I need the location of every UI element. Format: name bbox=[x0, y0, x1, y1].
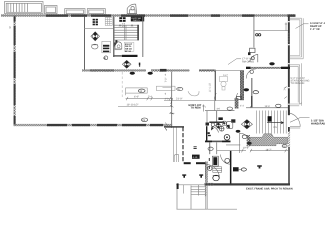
kitchen east wall line bbox=[170, 72, 173, 127]
lower hall marks bbox=[208, 142, 211, 154]
column mid bbox=[257, 165, 262, 168]
room divider line y30.5 bbox=[254, 30, 288, 32]
svg-text:EXIST. FRAME GAR. PRCH TO REMA: EXIST. FRAME GAR. PRCH TO REMAIN bbox=[246, 188, 293, 191]
fan symbol diamond 1 bbox=[91, 32, 100, 41]
fixtures row y117-126 bbox=[218, 117, 222, 120]
bay window B bbox=[65, 9, 85, 15]
small closet box bbox=[250, 48, 255, 52]
svg-text:RM OPNG: RM OPNG bbox=[242, 60, 254, 63]
WH symbol bbox=[103, 56, 107, 60]
handrail note bbox=[311, 120, 325, 126]
svg-text:HAND RAIL: HAND RAIL bbox=[311, 122, 325, 125]
kitchen dim line 1 bbox=[126, 95, 172, 100]
west wall of toilet room bbox=[206, 111, 209, 126]
dim line below bbox=[250, 149, 290, 152]
toilet west bbox=[92, 44, 98, 49]
island label oval bbox=[138, 89, 145, 93]
porch columns bbox=[182, 174, 203, 177]
stair treads vertical bbox=[257, 111, 287, 134]
top wall segment above porch bbox=[164, 126, 184, 127]
sink east of shelf bbox=[115, 40, 122, 49]
svg-text:TO REMAIN: TO REMAIN bbox=[291, 82, 305, 85]
svg-text:4'-0": 4'-0" bbox=[134, 95, 139, 98]
shelf line y28.5 bbox=[84, 28, 113, 30]
wall y141 bbox=[205, 141, 231, 143]
east wall black x230.5 bbox=[230, 151, 232, 184]
circled fixture bbox=[224, 135, 230, 141]
door label oval right of band bbox=[282, 144, 287, 147]
core bottom wall thick bbox=[122, 55, 138, 57]
porch door arc bbox=[206, 164, 220, 178]
tub bbox=[188, 91, 199, 96]
tick left of porch bbox=[165, 128, 167, 130]
label oval on corridor wall bbox=[253, 91, 258, 94]
svg-text:1'-0" VIF: 1'-0" VIF bbox=[310, 28, 320, 31]
porch north wall bbox=[184, 162, 191, 164]
label right of hatch wall bbox=[244, 88, 249, 91]
right wall bbox=[288, 16, 290, 186]
kitchen dim line 2 bbox=[118, 104, 172, 107]
svg-text:TO REM: TO REM bbox=[191, 107, 201, 110]
rounded corner box bbox=[174, 155, 178, 162]
svg-text:14-7: 14-7 bbox=[223, 74, 228, 77]
leader to ramp note bbox=[296, 24, 309, 29]
label box + leader bbox=[233, 167, 239, 171]
svg-text:DO: DO bbox=[283, 145, 287, 148]
leader to room note bbox=[228, 59, 241, 65]
small door mark bbox=[139, 63, 141, 67]
ticks on east wall line bbox=[169, 105, 174, 114]
equals mark bbox=[194, 147, 197, 149]
small fan diamond in toilet room bbox=[215, 123, 221, 129]
wall label oval bottom-left bbox=[141, 118, 147, 122]
fixture grid black A bbox=[93, 19, 98, 26]
tick on bottom wall bbox=[165, 120, 172, 128]
UP marking bbox=[268, 116, 272, 121]
top wall hatched band bbox=[1, 14, 295, 17]
door arc to hall bbox=[236, 130, 241, 133]
svg-text:16'-7": 16'-7" bbox=[266, 149, 272, 152]
dark corner marks bbox=[237, 97, 242, 100]
corridor west wall bbox=[251, 78, 252, 108]
rounded fixture with dark blob bbox=[227, 122, 233, 129]
ramp upper rect bbox=[290, 18, 303, 59]
top wall dark segments bbox=[46, 14, 296, 16]
label box black bbox=[192, 155, 200, 159]
toilet room top wall bbox=[209, 122, 224, 124]
ramp note text bbox=[310, 22, 325, 31]
bay window C bbox=[87, 9, 105, 15]
dark marks lower-left of toilet room bbox=[208, 132, 211, 136]
casework island bbox=[126, 88, 148, 95]
toilet top view bbox=[222, 121, 226, 125]
svg-text:10'-10 1/2": 10'-10 1/2" bbox=[127, 104, 139, 107]
fixture grid black B bbox=[119, 17, 125, 22]
water heater black bbox=[212, 156, 218, 166]
core right wall bbox=[142, 17, 143, 58]
hatch strip vertical x235-238 bbox=[235, 98, 239, 109]
stair core left wall bbox=[113, 17, 114, 58]
svg-text:EF 12: EF 12 bbox=[125, 50, 132, 53]
interior wall x84 bbox=[84, 17, 85, 71]
ramp lower rect bbox=[290, 63, 302, 106]
door arc closet bbox=[250, 55, 258, 63]
svg-text:7'-2": 7'-2" bbox=[165, 77, 168, 82]
entry canopy fan bbox=[127, 4, 136, 13]
pedestal sink bbox=[220, 77, 228, 91]
exterior stair top-left bbox=[5, 2, 44, 14]
corridor wall y67.8 bbox=[246, 67, 290, 69]
room label text block bbox=[124, 42, 134, 53]
door arc upper bbox=[221, 155, 231, 165]
interior stair bbox=[114, 25, 138, 40]
fan diamond symbol hall bbox=[241, 120, 252, 129]
door label ovals under wall bbox=[130, 72, 153, 75]
east hatched wall of bath bbox=[240, 71, 244, 101]
svg-text:4'-0: 4'-0 bbox=[165, 98, 170, 101]
wall y110.5 bbox=[205, 110, 235, 112]
svg-text:2'-0: 2'-0 bbox=[148, 95, 153, 98]
hall line west of bath bbox=[163, 87, 172, 89]
toilet room upper walls bbox=[206, 126, 207, 141]
bottom-left wall bbox=[14, 124, 173, 126]
room name text black bbox=[189, 104, 202, 110]
small note near pantry bbox=[122, 23, 126, 29]
label OO bbox=[256, 34, 261, 36]
vertical dim right bbox=[209, 82, 212, 92]
door arc in toilet room bbox=[212, 127, 219, 133]
shelf rows bbox=[213, 167, 222, 173]
faint kitchen west wall dashes bbox=[121, 72, 123, 98]
svg-text:10'-6": 10'-6" bbox=[243, 147, 249, 150]
door label oval above wall bbox=[269, 62, 274, 65]
svg-text:21'-0": 21'-0" bbox=[176, 98, 182, 101]
fan symbol diamond 2 bbox=[122, 60, 131, 68]
top line of bath rooms bbox=[216, 70, 241, 72]
small wall marks x209 bbox=[209, 158, 210, 161]
svg-text:A-10: A-10 bbox=[193, 156, 198, 159]
room label black box top bbox=[131, 17, 144, 22]
crosshatch band below stairs bbox=[250, 134, 288, 146]
toilet lower bbox=[213, 175, 219, 181]
east dim ticks bbox=[284, 86, 287, 91]
vertical wall x216.5 bbox=[215, 111, 218, 126]
lav circles bbox=[211, 123, 214, 126]
svg-text:14'-0: 14'-0 bbox=[265, 105, 271, 108]
small dim bracket right bbox=[202, 105, 204, 112]
vertical line x214.6 above wall bbox=[213, 98, 216, 111]
dark dashed wall x183 bbox=[182, 127, 184, 162]
vertical dim text west of wall bbox=[165, 74, 170, 101]
svg-text:4'-2: 4'-2 bbox=[240, 105, 245, 108]
closet wall vertical x254 bbox=[253, 17, 254, 48]
svg-text:11'-1 1/2: 11'-1 1/2 bbox=[209, 82, 212, 92]
door bottom-left of core bbox=[114, 43, 121, 50]
chimney verticals bbox=[174, 127, 177, 162]
door in right wall bbox=[290, 113, 310, 128]
shelf block with bars bbox=[102, 41, 111, 52]
corner wall x215 bbox=[215, 71, 216, 101]
east counter bbox=[156, 86, 175, 90]
light shelf grid bbox=[105, 17, 112, 25]
stair clearance note bbox=[291, 77, 310, 85]
left wall bbox=[14, 16, 16, 126]
stair top wall y108 bbox=[246, 107, 288, 109]
svg-text:2ND FL: 2ND FL bbox=[133, 19, 141, 22]
bath label oval bbox=[177, 87, 183, 91]
bottom wall right part (thick dark) bbox=[205, 183, 291, 185]
spiral door arc below wall bbox=[246, 69, 256, 79]
bay window A bbox=[45, 6, 58, 14]
west hatched wall bbox=[205, 162, 208, 184]
wc circles bbox=[219, 126, 224, 131]
svg-text:DN: DN bbox=[274, 126, 278, 129]
